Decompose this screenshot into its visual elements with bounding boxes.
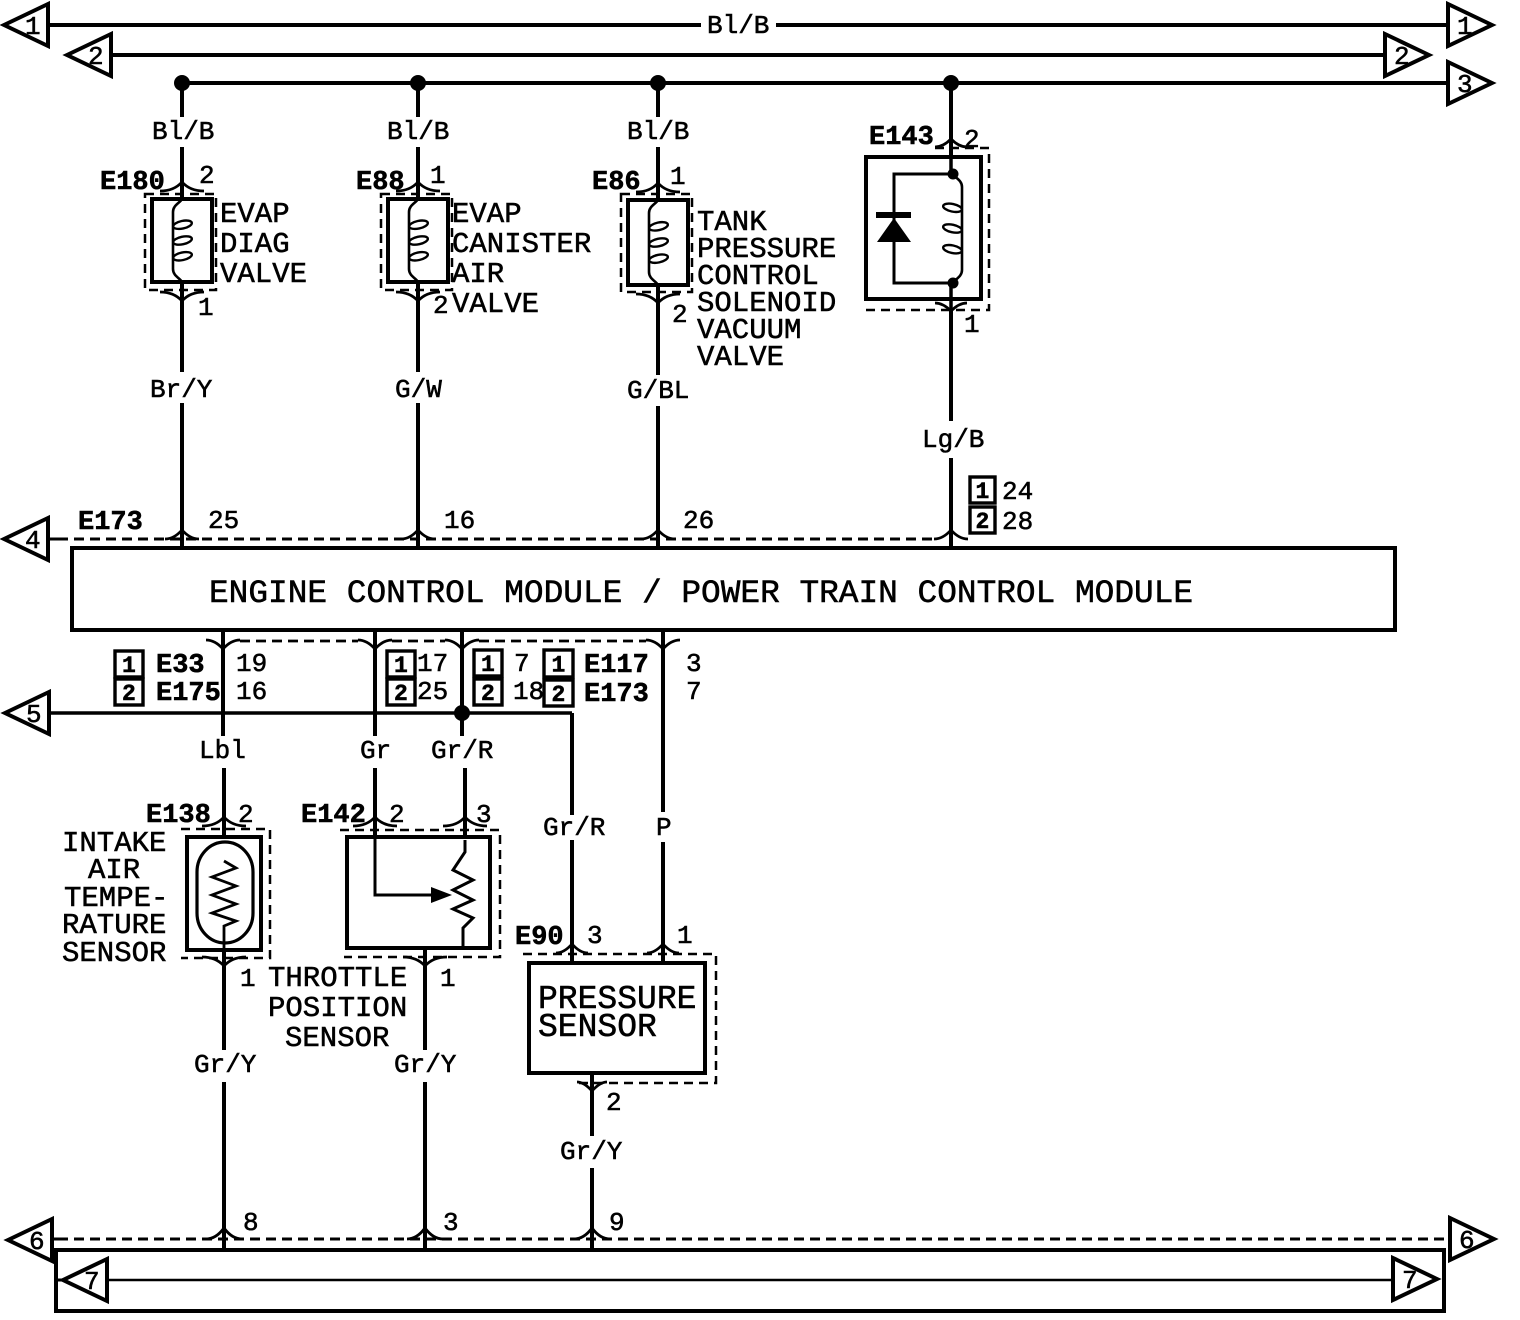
svg-text:1: 1	[670, 162, 686, 192]
wire stub 9 to bus box	[590, 1228, 594, 1250]
svg-text:5: 5	[26, 700, 42, 730]
svg-text:VALVE: VALVE	[697, 341, 784, 374]
connector chevron ECM out pin 19/16	[206, 640, 240, 649]
wire branch D to ECM	[949, 458, 953, 548]
svg-text:3: 3	[476, 800, 492, 830]
bus chevron pin 3	[407, 1228, 443, 1239]
svg-text:1: 1	[25, 12, 41, 42]
wire branch A upper	[180, 83, 184, 117]
svg-text:1: 1	[430, 161, 446, 191]
sensor E90 solid box	[529, 963, 705, 1073]
junction dot branch D	[943, 75, 959, 91]
svg-text:E175: E175	[156, 679, 221, 709]
connector E180 pin 1 chevron	[160, 292, 204, 301]
svg-text:VALVE: VALVE	[220, 258, 307, 291]
sensor E142 dashed outline	[340, 830, 500, 957]
svg-text:4: 4	[25, 526, 41, 556]
wire ECM pin19 down	[221, 630, 225, 736]
svg-text:6: 6	[29, 1227, 45, 1257]
svg-text:Bl/B: Bl/B	[387, 117, 449, 147]
dashed connector line below ECM seg3	[479, 640, 646, 643]
wire stub 8 to bus box	[222, 1228, 226, 1250]
splice box 2 pin 18	[474, 679, 502, 705]
sensor E138 solid box	[187, 837, 261, 950]
junction dot node Gr/R	[454, 705, 470, 721]
svg-text:7: 7	[84, 1267, 100, 1297]
svg-text:Gr/R: Gr/R	[543, 813, 605, 843]
connector E143 pin 2 chevron	[935, 139, 967, 147]
connector E142 pin 3 chevron	[443, 817, 487, 826]
svg-text:3: 3	[443, 1208, 459, 1238]
wire E138 pin1 down	[222, 948, 226, 1050]
svg-text:6: 6	[1459, 1226, 1475, 1256]
wire Gr to E142	[373, 768, 377, 840]
svg-text:VALVE: VALVE	[452, 288, 539, 321]
svg-text:1: 1	[677, 921, 693, 951]
dashed bus line bottom	[48, 1238, 58, 1241]
wire branch C to ECM	[656, 406, 660, 548]
connector E86 pin 1 chevron	[636, 183, 680, 192]
wire Gr/R elbow down	[570, 713, 574, 815]
sensor E138 capsule	[197, 842, 253, 943]
connector chevron ECM pin 16	[401, 530, 435, 539]
svg-text:2: 2	[672, 300, 688, 330]
junction dot E143 bottom	[948, 278, 959, 289]
svg-text:Gr/Y: Gr/Y	[394, 1050, 457, 1080]
junction dot branch C	[650, 75, 666, 91]
splice box 1 pin 24 label	[970, 477, 995, 503]
svg-text:24: 24	[1002, 477, 1033, 507]
diode D1 cathode bar	[876, 212, 911, 218]
valve E180 solid box	[152, 199, 212, 282]
wire branch A to ECM	[180, 403, 184, 548]
wire branch D upper	[949, 83, 953, 157]
off-page connector arrow 1 right	[1448, 4, 1492, 46]
svg-text:16: 16	[444, 506, 475, 536]
relay E143 dashed outline	[866, 148, 989, 310]
svg-text:DIAG: DIAG	[220, 228, 290, 261]
junction dot E143 top	[948, 169, 959, 180]
connector chevron ECM out pin 3/7	[646, 640, 680, 649]
svg-text:E180: E180	[100, 168, 165, 198]
thermistor resistor zigzag E138	[212, 861, 236, 950]
off-page connector arrow 1 left	[4, 4, 48, 46]
svg-text:2: 2	[481, 681, 495, 707]
svg-text:7: 7	[514, 649, 530, 679]
svg-text:1: 1	[976, 479, 990, 505]
svg-text:Bl/B: Bl/B	[707, 11, 769, 41]
svg-text:ENGINE CONTROL MODULE / POWER: ENGINE CONTROL MODULE / POWER TRAIN CONT…	[209, 575, 1193, 612]
connector chevron ECM pin 24/28	[934, 530, 968, 539]
connector E88 pin 2 chevron	[396, 292, 440, 301]
junction dot branch B	[410, 75, 426, 91]
diode branch wires E143	[894, 174, 953, 283]
dashed connector line below ECM seg1	[240, 640, 358, 643]
wire E142 pin1 stub	[423, 948, 427, 966]
svg-text:P: P	[656, 813, 672, 843]
svg-text:3: 3	[587, 921, 603, 951]
solenoid coil E180	[173, 199, 182, 282]
connector E90 pin 3 chevron	[556, 944, 588, 953]
svg-text:2: 2	[976, 509, 990, 535]
wire ECM pin3 down	[661, 630, 665, 812]
sensor E138 dashed outline	[181, 829, 270, 958]
off-page connector arrow 7 right	[1393, 1258, 1437, 1300]
wire branch C upper	[656, 83, 660, 117]
svg-text:1: 1	[440, 964, 456, 994]
solenoid coil E143	[953, 174, 962, 283]
connector E173 dashed line	[48, 538, 58, 541]
svg-text:1: 1	[481, 652, 495, 678]
svg-text:2: 2	[552, 682, 566, 708]
relay E143 solid box	[866, 157, 981, 299]
svg-text:Br/Y: Br/Y	[150, 375, 213, 405]
wire Gr/R to E142	[463, 768, 467, 845]
svg-text:Gr/Y: Gr/Y	[194, 1050, 257, 1080]
svg-text:Gr/Y: Gr/Y	[560, 1137, 623, 1167]
svg-text:3: 3	[686, 649, 702, 679]
svg-text:E143: E143	[869, 123, 934, 153]
svg-text:1: 1	[122, 653, 136, 679]
wire branch D lower	[949, 311, 953, 421]
svg-text:9: 9	[609, 1208, 625, 1238]
off-page connector arrow 2 left	[67, 34, 111, 76]
svg-text:1: 1	[394, 653, 408, 679]
svg-text:2: 2	[88, 42, 104, 72]
wire line 2	[112, 53, 1385, 57]
wire Gr/Y to bus	[222, 1082, 226, 1228]
svg-text:SENSOR: SENSOR	[538, 1009, 657, 1046]
wire branch B to E88	[416, 147, 420, 199]
svg-text:E173: E173	[584, 680, 649, 710]
potentiometer wiper arrowhead E142	[431, 887, 452, 903]
connector E180 pin 2 chevron	[160, 182, 204, 191]
splice box 2 E175 label	[115, 679, 143, 705]
off-page connector arrow 3 right	[1448, 62, 1492, 104]
svg-text:1: 1	[964, 310, 980, 340]
svg-text:25: 25	[208, 506, 239, 536]
svg-text:EVAP: EVAP	[220, 198, 290, 231]
svg-text:E173: E173	[78, 508, 143, 538]
splice box 1 E33 label	[115, 651, 143, 677]
ECM box	[72, 548, 1395, 630]
svg-text:SENSOR: SENSOR	[62, 937, 166, 970]
connector E138 pin 1 chevron	[202, 957, 246, 966]
svg-text:Lg/B: Lg/B	[922, 425, 984, 455]
wire E142 pin1 down	[423, 966, 427, 1050]
svg-text:26: 26	[683, 506, 714, 536]
svg-text:E90: E90	[515, 923, 564, 953]
connector E138 pin 2 chevron	[202, 817, 246, 826]
wire branch A lower	[180, 282, 184, 372]
svg-text:1: 1	[1457, 12, 1473, 42]
valve E86 solid box	[628, 200, 688, 285]
potentiometer resistor zigzag E142	[453, 840, 473, 948]
wire branch C to E86	[656, 147, 660, 200]
wire from arrow 5	[49, 711, 572, 715]
svg-text:7: 7	[686, 677, 702, 707]
junction dot branch A	[174, 75, 190, 91]
wire Bl/B top line 1 right segment	[776, 23, 1448, 27]
connector chevron ECM pin 26	[641, 530, 675, 539]
splice box 1 E117	[544, 650, 573, 677]
wire ECM pin7 down	[460, 630, 464, 736]
wire branch C lower	[656, 285, 660, 375]
valve E88 solid box	[388, 199, 448, 282]
valve E86 dashed outline	[621, 194, 692, 292]
connector E90 pin 1 chevron	[647, 944, 679, 953]
valve E180 dashed outline	[145, 194, 216, 290]
wire Lbl to E138	[222, 768, 226, 862]
sensor E90 dashed outline	[523, 954, 716, 1083]
svg-text:2: 2	[1394, 42, 1410, 72]
svg-text:AIR: AIR	[452, 258, 504, 291]
connector chevron ECM out pin 17/25	[358, 640, 392, 649]
svg-text:Gr/R: Gr/R	[431, 736, 493, 766]
off-page connector arrow 4 left	[4, 518, 48, 560]
svg-text:E86: E86	[592, 168, 641, 198]
connector E142 pin 1 chevron	[403, 957, 447, 966]
svg-text:THROTTLE: THROTTLE	[268, 962, 407, 995]
solenoid coil E86	[649, 200, 658, 285]
off-page connector arrow 6 right	[1450, 1218, 1494, 1260]
connector E88 pin 1 chevron	[396, 182, 440, 191]
off-page connector arrow 6 left	[8, 1219, 52, 1261]
svg-text:28: 28	[1002, 507, 1033, 537]
wire bus line 3	[182, 81, 1448, 85]
sensor E142 solid box	[347, 837, 490, 948]
connector chevron ECM out pin 7/18	[445, 640, 479, 649]
wire ECM pin17 down	[373, 630, 377, 736]
diode D1 triangle	[877, 218, 911, 242]
svg-text:G/W: G/W	[395, 375, 442, 405]
connector E142 pin 2 chevron	[353, 817, 397, 826]
wire Gr/R to E90	[570, 840, 574, 961]
connector E86 pin 2 chevron	[636, 294, 680, 303]
bus box bottom	[56, 1250, 1444, 1311]
svg-text:POSITION: POSITION	[268, 992, 407, 1025]
wire E90 Gr/Y to bus	[590, 1168, 594, 1228]
svg-text:EVAP: EVAP	[452, 198, 522, 231]
wire stub arrow7 left	[56, 1279, 64, 1282]
valve E88 dashed outline	[381, 194, 452, 290]
svg-text:3: 3	[1457, 70, 1473, 100]
connector E143 pin 1 chevron	[935, 303, 967, 311]
svg-text:Bl/B: Bl/B	[627, 117, 689, 147]
solenoid coil E88	[409, 199, 418, 282]
svg-text:2: 2	[964, 125, 980, 155]
svg-text:G/BL: G/BL	[627, 376, 689, 406]
off-page connector arrow 2 right	[1385, 34, 1429, 76]
bus chevron pin 9	[574, 1228, 610, 1239]
svg-text:1: 1	[552, 653, 566, 679]
wire P to E90	[661, 842, 665, 961]
potentiometer wiper wire E142	[375, 837, 433, 895]
connector chevron ECM pin 25	[165, 530, 199, 539]
svg-text:Bl/B: Bl/B	[152, 117, 214, 147]
splice box 1 pin 7	[474, 650, 502, 676]
wire E90 pin2 down	[590, 1075, 594, 1136]
splice box 2 pin 28 label	[970, 507, 995, 533]
svg-text:2: 2	[122, 681, 136, 707]
svg-text:2: 2	[389, 800, 405, 830]
svg-text:CANISTER: CANISTER	[452, 228, 591, 261]
splice box 1 pin 17	[387, 651, 415, 677]
svg-text:2: 2	[394, 681, 408, 707]
bus chevron pin 8	[206, 1228, 242, 1239]
wire branch B upper	[416, 83, 420, 117]
svg-text:E33: E33	[156, 651, 205, 681]
wire branch B to ECM	[416, 403, 420, 548]
wire Bl/B top line 1 left segment	[48, 23, 701, 27]
svg-text:19: 19	[236, 649, 267, 679]
svg-text:25: 25	[417, 677, 448, 707]
svg-text:2: 2	[199, 161, 215, 191]
svg-text:18: 18	[513, 677, 544, 707]
svg-text:2: 2	[433, 291, 449, 321]
svg-text:2: 2	[606, 1088, 622, 1118]
wire inner bus line	[108, 1279, 1393, 1282]
svg-text:Gr: Gr	[360, 736, 391, 766]
wire branch A to E180	[180, 147, 184, 199]
svg-text:SENSOR: SENSOR	[285, 1022, 389, 1055]
svg-text:E117: E117	[584, 651, 649, 681]
off-page connector arrow 5 left	[5, 692, 49, 734]
wire branch B lower	[416, 282, 420, 372]
svg-text:2: 2	[238, 800, 254, 830]
svg-text:8: 8	[243, 1208, 259, 1238]
wire E143 internal bottom	[949, 283, 953, 311]
splice box 2 E173	[544, 680, 573, 706]
svg-text:7: 7	[1402, 1266, 1418, 1296]
off-page connector arrow 7 left	[63, 1259, 107, 1301]
wire Gr/Y TPS to bus	[423, 1082, 427, 1228]
wire E143 internal top	[949, 157, 953, 174]
svg-text:Lbl: Lbl	[199, 736, 246, 766]
connector E90 pin 2 chevron	[577, 1082, 607, 1091]
splice box 2 pin 25	[387, 679, 415, 705]
svg-text:17: 17	[417, 649, 448, 679]
dashed connector line below ECM seg2	[392, 640, 445, 643]
svg-text:1: 1	[240, 964, 256, 994]
svg-text:16: 16	[236, 677, 267, 707]
wire stub 3 to bus box	[423, 1228, 427, 1250]
svg-text:1: 1	[198, 293, 214, 323]
